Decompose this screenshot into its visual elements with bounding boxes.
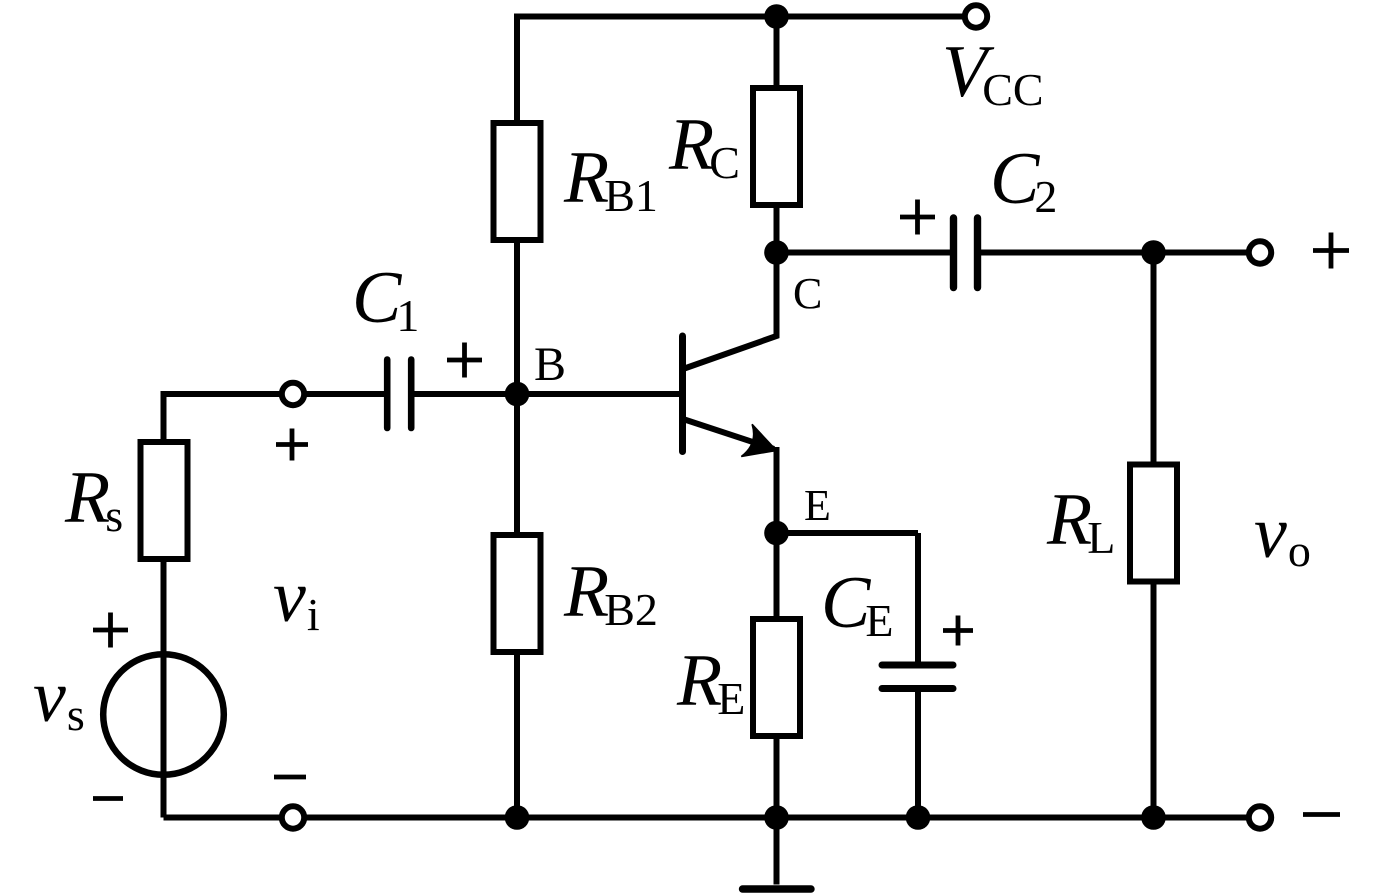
svg-text:RB2: RB2 — [563, 551, 658, 635]
wire RC to C node — [774, 205, 780, 253]
svg-text:B: B — [534, 338, 566, 391]
svg-text:C: C — [793, 269, 822, 318]
minus sign output — [1303, 812, 1340, 817]
wire RL to bottom rail — [1151, 581, 1157, 818]
minus sign vi bottom — [274, 775, 306, 780]
wire collector vertical and diagonal — [683, 253, 777, 370]
wire bottom rail — [164, 815, 1257, 821]
wire Rs branch top — [161, 391, 167, 443]
terminal VCC — [965, 5, 987, 27]
resistor RL — [1130, 465, 1177, 582]
wire C node to C2 — [777, 250, 951, 256]
wire top rail — [517, 14, 972, 20]
node C — [764, 240, 789, 265]
node bottom RB2 — [505, 805, 530, 830]
terminal output minus — [1249, 806, 1271, 828]
svg-text:RE: RE — [676, 640, 745, 724]
node output top — [1141, 240, 1166, 265]
wire RE to bottom rail — [774, 736, 780, 818]
minus sign vs bottom — [93, 796, 123, 801]
transistor emitter arrowhead — [741, 424, 776, 456]
plus sign vi top — [276, 429, 308, 461]
svg-text:RC: RC — [668, 104, 740, 188]
svg-text:Rs: Rs — [64, 457, 123, 541]
svg-text:vs: vs — [33, 656, 85, 740]
transistor base bar — [679, 336, 686, 452]
plus sign vs top — [93, 613, 128, 648]
svg-text:vi: vi — [273, 556, 320, 640]
resistor Rs — [141, 442, 188, 559]
wire CE to bottom rail — [915, 685, 921, 818]
wire C2 to right terminal — [981, 250, 1256, 256]
svg-text:E: E — [804, 481, 831, 530]
wire RB2 to bottom rail — [514, 652, 520, 818]
wire Rs to bottom rail through vs — [161, 559, 167, 818]
wire B node to RB2 — [514, 394, 520, 536]
wire C1 to B node — [415, 391, 518, 397]
plus sign C1 — [447, 343, 482, 378]
node top rail junction — [764, 4, 789, 29]
capacitor C1 — [387, 360, 411, 429]
node B — [505, 382, 530, 407]
plus sign C2 — [900, 200, 935, 235]
wire E node to RE — [774, 533, 780, 620]
svg-text:VCC: VCC — [942, 31, 1044, 115]
plus sign output — [1313, 233, 1349, 269]
wire emitter diagonal — [683, 419, 774, 449]
wire E node to CE — [777, 530, 919, 536]
wire RC branch top — [774, 17, 780, 90]
svg-text:CE: CE — [821, 562, 893, 646]
node E — [764, 521, 789, 546]
wire emitter vertical — [774, 447, 780, 533]
wire RB1 branch top — [514, 14, 520, 125]
source vs circle — [103, 654, 224, 775]
svg-text:C1: C1 — [352, 257, 419, 341]
wire RB1 to B node — [514, 240, 520, 394]
resistor RE — [753, 619, 800, 736]
wire base — [517, 391, 685, 397]
resistor RB2 — [494, 535, 541, 652]
capacitor CE — [882, 665, 953, 689]
plus sign CE — [943, 616, 973, 646]
wire input top — [164, 391, 385, 397]
svg-text:C2: C2 — [990, 138, 1057, 222]
node bottom CE — [906, 805, 931, 830]
wire RL branch top — [1151, 253, 1157, 467]
svg-text:vo: vo — [1254, 492, 1311, 576]
svg-text:RB1: RB1 — [563, 137, 658, 221]
node bottom RE — [764, 805, 789, 830]
svg-text:RL: RL — [1046, 479, 1115, 563]
capacitor C2 — [954, 218, 978, 288]
terminal input — [282, 383, 304, 405]
node bottom RL — [1141, 805, 1166, 830]
ground — [774, 818, 780, 885]
resistor RB1 — [494, 123, 541, 240]
wire CE top — [915, 533, 921, 668]
resistor RC — [753, 88, 800, 205]
terminal output plus — [1249, 241, 1271, 263]
terminal input bottom — [282, 806, 304, 828]
